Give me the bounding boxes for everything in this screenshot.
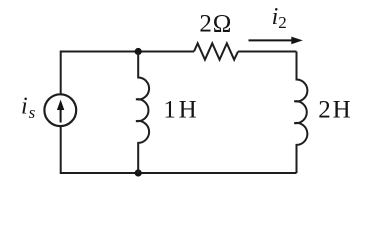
svg-text:H: H — [333, 97, 351, 124]
svg-text:2: 2 — [318, 97, 331, 124]
wire right vertical upper (corner to coil) — [296, 51, 297, 53]
node A top junction dot — [135, 48, 142, 55]
resistor R 2ohm zigzag — [194, 43, 238, 59]
node B bottom junction dot — [135, 169, 142, 176]
inductor L2 2H (right branch with leads) — [294, 52, 307, 174]
svg-text:H: H — [179, 97, 197, 124]
svg-text:Ω: Ω — [213, 11, 232, 38]
svg-text:s: s — [29, 103, 36, 122]
wire top-left horizontal — [61, 51, 194, 53]
wire left vertical lower — [60, 126, 62, 174]
current source i_s circle — [44, 94, 76, 126]
wire bottom horizontal — [61, 172, 297, 174]
wire top-right horizontal (resistor to corner) — [238, 51, 297, 53]
svg-text:1: 1 — [163, 97, 176, 124]
svg-text:2: 2 — [278, 13, 287, 32]
i_2 arrowhead — [291, 37, 303, 45]
current source arrowhead — [57, 100, 64, 110]
inductor L1 1H (middle branch with leads) — [136, 52, 149, 174]
svg-text:i: i — [21, 93, 28, 119]
current source arrow shaft — [60, 107, 62, 123]
svg-text:2: 2 — [199, 11, 212, 38]
i_2 arrow shaft — [249, 39, 294, 41]
wire left vertical upper — [60, 51, 62, 95]
